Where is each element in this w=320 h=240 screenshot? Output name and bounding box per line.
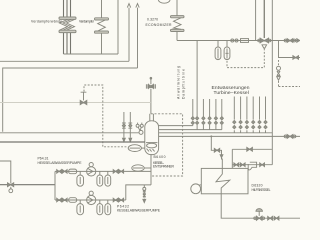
- upper train suction pot: [77, 171, 84, 186]
- drain group 1 lines: [197, 41, 222, 130]
- lower train strainer: [69, 198, 77, 203]
- drain line from top 2 into junction valve: [263, 0, 265, 38]
- pump train riser: [54, 171, 56, 200]
- junction valve on pipe: [258, 38, 271, 44]
- wire feed line to valve cluster: [0, 132, 139, 134]
- label P6432 KESSELABWASSERPUMPE: [117, 204, 161, 212]
- svg-text:Dampfturbine: Dampfturbine: [181, 69, 185, 99]
- header isolation valve with drain pot: [8, 183, 14, 193]
- main steam pipe: [177, 40, 300, 42]
- motor valve cluster at vessel inlet: [136, 123, 143, 135]
- motor drain valve: [254, 209, 265, 221]
- drain group 2 lines: [234, 97, 265, 133]
- lower train valve pair: [57, 198, 67, 202]
- feedwater riser line 1 with arrow: [127, 4, 130, 62]
- label B6400 KESSEL-ENTSPANNER: [153, 155, 175, 169]
- upper pump P64.31A: [87, 163, 96, 176]
- main blowdown header strong: [0, 141, 145, 143]
- evaporator walls Verdampferwaende triple tube: [59, 0, 76, 54]
- svg-text:HILFSKESSEL: HILFSKESSEL: [252, 188, 271, 192]
- lower pump P64.31B: [87, 191, 96, 205]
- upper train valve pair: [57, 170, 67, 174]
- pump K2 ellipse: [132, 165, 151, 171]
- svg-text:P64.31: P64.31: [38, 156, 49, 160]
- svg-text:Anwärmleitung: Anwärmleitung: [177, 66, 181, 99]
- svg-text:Turbine–Kessel: Turbine–Kessel: [214, 90, 249, 96]
- tank bottom drain line: [221, 194, 300, 218]
- tank attachment circle: [191, 184, 202, 194]
- drain line D to right: [159, 135, 300, 137]
- economizer coil: [171, 0, 185, 41]
- valve with seats on line D right: [284, 135, 296, 139]
- lower train rise to collector: [126, 185, 151, 200]
- lower train discharge pot 2: [105, 200, 111, 215]
- lower train check valve pair: [113, 198, 123, 202]
- drain group 1 valve symbols: [196, 117, 224, 125]
- svg-text:Verdampfer: Verdampfer: [79, 19, 95, 23]
- dashed drain to sample vessels: [227, 49, 264, 68]
- wire right side of evaporator box: [117, 0, 119, 54]
- upper pump train line: [55, 170, 151, 172]
- label P64.31 HEISSELABWASSERPUMPE: [38, 156, 83, 165]
- svg-text:ECONOMIZER: ECONOMIZER: [146, 23, 173, 27]
- svg-text:0.3270: 0.3270: [147, 17, 158, 21]
- vessel top stubs: [150, 114, 154, 122]
- faint water line across: [0, 102, 151, 104]
- sample vessel 1 on pipe: [215, 41, 221, 60]
- svg-text:HEISSELABWASSERPUMPE: HEISSELABWASSERPUMPE: [38, 161, 83, 165]
- upper train discharge pot 1: [97, 171, 103, 186]
- dashed blowdown with valve stack: [277, 60, 301, 87]
- svg-text:ENTSPANNER: ENTSPANNER: [153, 165, 175, 169]
- riser with valve to line A: [191, 99, 194, 126]
- upper train strainer: [69, 169, 77, 174]
- lower pump train line: [55, 199, 126, 201]
- tank feed drop with valve: [211, 136, 223, 168]
- drain valve pair: [268, 216, 279, 220]
- svg-text:B6400: B6400: [154, 155, 166, 159]
- small oval top edge: [158, 0, 170, 3]
- blowoff drop with valve stack and arrow: [143, 185, 146, 203]
- label Anwaermleitung Dampfturbine vertical: [177, 66, 186, 99]
- wire return header lower: [3, 68, 138, 132]
- valve on right branch: [293, 56, 299, 60]
- inline strainer box on pipe: [241, 39, 249, 43]
- wire return header top: [0, 60, 129, 62]
- valve at pipe right edge: [297, 39, 300, 43]
- tag flag on recirculation line: [248, 162, 256, 170]
- drain header 2 from vessel: [159, 132, 273, 134]
- drain collector line A from vessel: [159, 125, 193, 127]
- dashed enclosure around B6400: [151, 114, 183, 176]
- upper train check valve pair: [113, 170, 123, 174]
- wire left drain corner: [0, 161, 11, 184]
- long vertical line right: [271, 0, 273, 165]
- pump K1 ellipse: [128, 145, 145, 152]
- label 0.3270 ECONOMIZER: [146, 17, 173, 27]
- drain line from top 1: [255, 0, 257, 41]
- valve with seats on pipe right: [284, 39, 296, 43]
- control valve on faint line: [80, 92, 87, 104]
- branch to right attemperator: [279, 41, 301, 58]
- warmup line valve with blind flange: [146, 77, 155, 113]
- drain funnel below junction: [262, 45, 267, 48]
- recirculation top line with valve: [232, 147, 272, 164]
- wire bottom of evaporator box: [64, 53, 119, 55]
- blowdown line B with chevron valve: [128, 112, 132, 142]
- sample vessel 2 on pipe: [224, 41, 230, 60]
- collector to vessel bottom: [150, 154, 152, 185]
- label Entwaesserungen Turbine-Kessel: [212, 85, 250, 96]
- drain header 1 from vessel: [159, 129, 222, 131]
- svg-text:KESSELABWASSERPUMPE: KESSELABWASSERPUMPE: [117, 209, 161, 213]
- feedwater riser line 2 with arrow: [136, 4, 139, 68]
- upper train discharge pot 2: [105, 171, 111, 186]
- recirculation bottom line with valves: [232, 163, 272, 169]
- boiler flash vessel B6400: [145, 121, 159, 155]
- label D6320 HILFSKESSEL: [252, 184, 271, 192]
- lower train discharge pot 1: [97, 200, 103, 215]
- valve pair on pipe: [231, 39, 238, 42]
- lower train suction pot: [77, 200, 84, 215]
- dashed signal to pump K1: [84, 85, 128, 147]
- evaporator Verdampfer coil: [95, 0, 109, 54]
- junction dot on line D: [210, 135, 212, 137]
- auxiliary boiler D6320 tank: [201, 168, 248, 193]
- svg-text:Verdampferwände: Verdampferwände: [31, 19, 62, 23]
- waste water header strong: [0, 184, 55, 186]
- blowdown line A with chevron valve: [122, 112, 126, 142]
- drain group 2 valve symbols: [233, 120, 267, 128]
